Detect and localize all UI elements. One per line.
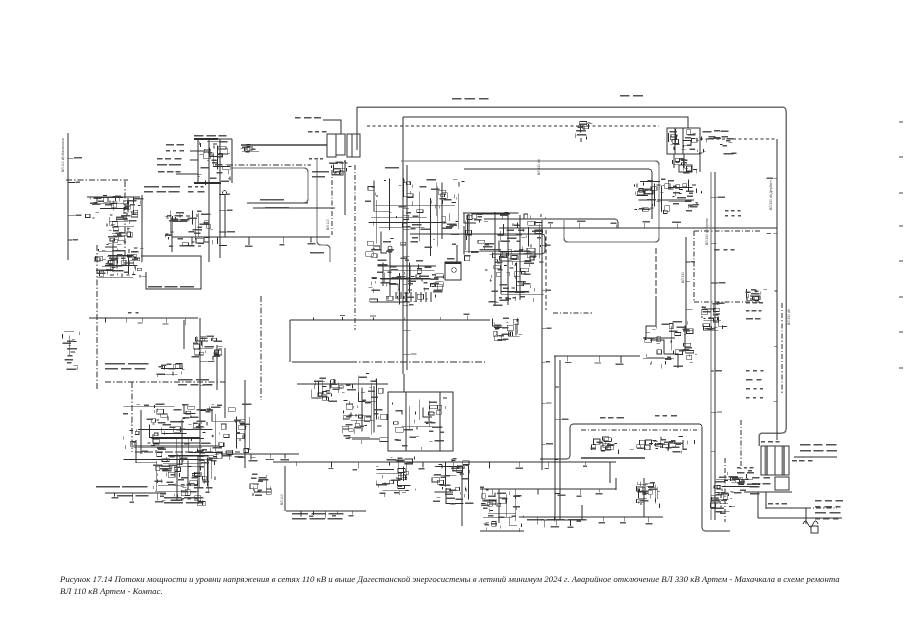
wire MTEC bus v3 x220 xyxy=(219,139,221,258)
substation cluster mid small x156 y363 xyxy=(157,364,185,378)
comb ticks y292 xyxy=(396,292,431,299)
generator box A4 xyxy=(352,134,360,157)
substation cluster x712 y470 row xyxy=(714,470,760,494)
Artem330 divider1 xyxy=(674,128,676,154)
substation cluster x700 y302 xyxy=(701,302,728,330)
wire MTEC top bus thin y139 xyxy=(218,138,232,140)
wire Chiryurt inner v1 xyxy=(405,392,407,451)
label bottom labels2 xyxy=(164,497,204,504)
wire loop line y219 xyxy=(484,219,618,228)
wire line y454 dashdot xyxy=(221,453,299,455)
wire thin vertical x656 link xyxy=(655,248,657,301)
wire dash-dot y313 segment xyxy=(553,312,592,314)
substation cluster Buynaksk xyxy=(85,195,143,221)
Artem330 right stub xyxy=(699,152,701,172)
taps on y356 xyxy=(565,356,624,365)
wire unit feed x457 xyxy=(456,245,458,262)
wire vertical x198 south xyxy=(197,455,199,504)
wire dashdot y382 left xyxy=(105,381,225,383)
substation cluster cluster A marks below xyxy=(330,161,352,175)
wire right block v x806 xyxy=(805,508,807,524)
taps on y197 xyxy=(92,197,135,206)
substation cluster Makhachkala330 box xyxy=(492,317,522,341)
wire dash-dot line y165 MTEC-A xyxy=(227,164,311,166)
wire 330kV Artem feed y117 xyxy=(403,117,688,128)
wire SE loop dashdot y430 xyxy=(581,429,697,431)
label label below A xyxy=(309,158,323,160)
taps on y228 xyxy=(518,220,682,228)
wire MTEC bus v2 x209 xyxy=(208,139,210,262)
wire line y356 center-right xyxy=(554,355,640,357)
wire big loop bottom dashdot xyxy=(350,361,485,363)
substation cluster left edge small x62 y330 xyxy=(62,331,79,370)
transformer bar T1 Derbent330 xyxy=(765,446,769,475)
taps on y384 xyxy=(314,384,375,392)
label PS 41 xyxy=(310,252,324,254)
wire line y203 xyxy=(247,202,308,204)
page edge marks right xyxy=(899,122,903,368)
label south labels y513 xyxy=(292,513,344,520)
substation cluster south mid x253 xyxy=(250,474,271,497)
wire right block v x766 xyxy=(765,492,767,509)
label M-TEC left labels xyxy=(166,144,184,152)
label south labels y519 xyxy=(527,519,586,521)
wire gray route x317 down xyxy=(317,160,330,262)
taps on x711 xyxy=(711,197,725,496)
svg-text:ВЛ 110 кВ: ВЛ 110 кВ xyxy=(397,284,401,300)
taps on y493 xyxy=(112,493,164,503)
svg-text:ВЛ 330 кВ: ВЛ 330 кВ xyxy=(537,159,541,175)
substation cluster huge bottom left xyxy=(123,403,256,465)
label M-TEC below labels xyxy=(188,186,205,193)
label label y503 x768 xyxy=(768,503,787,505)
wire MTEC bus v4 x232 xyxy=(231,139,233,183)
wire vertical x177 south xyxy=(176,454,178,500)
wire dash-dot vertical x355 xyxy=(354,165,356,330)
label labels y379 xyxy=(178,379,212,386)
label rect interior label xyxy=(148,286,194,288)
substation cluster mid cluster y260-300 xyxy=(368,262,443,304)
wire Chiryurt inner v2 xyxy=(439,392,441,451)
taps on x200 xyxy=(200,336,215,453)
wire dash-dot loop right V xyxy=(693,231,695,302)
wire MTEC top busbar y139 xyxy=(194,138,218,140)
wire dash-dot loop right H2 xyxy=(694,301,762,303)
wire main vertical bus x403 xyxy=(402,117,404,374)
taps on y511 xyxy=(301,511,353,518)
substation cluster top mid small x575 xyxy=(576,122,593,143)
small box below block xyxy=(775,477,789,490)
wire left edge vertical x68 xyxy=(67,133,69,260)
taps on y489 xyxy=(488,489,603,497)
wire line y452 south-left xyxy=(135,451,240,453)
substation cluster M-TEC right box xyxy=(241,144,260,152)
label labels right of x177 xyxy=(181,477,198,500)
taps on x403 xyxy=(403,183,416,355)
wire vertical x560 south xyxy=(559,360,561,520)
Artem330 below pair xyxy=(674,154,684,168)
taps on x68 xyxy=(68,157,82,240)
wire right block dashdot y508 xyxy=(806,507,837,509)
wire dash-dot left y180 xyxy=(66,179,128,181)
wire line y517 bottom xyxy=(519,516,663,518)
substation cluster below rect center xyxy=(463,212,545,265)
wire line y200 east xyxy=(657,199,694,201)
wire dashed segment y139 right xyxy=(700,138,777,140)
winding boxes xyxy=(811,526,818,533)
wire bottom line y520 xyxy=(540,519,580,521)
substation cluster N.Tarki labels xyxy=(165,210,213,247)
label label VL330 Artem top xyxy=(452,98,488,100)
wire line y462 south xyxy=(273,461,616,463)
wire 330kV line Artem-Derbent top xyxy=(357,107,786,111)
winding symbol bottom-right xyxy=(803,521,818,527)
wire vertical x132 dashdot xyxy=(131,382,133,452)
wire dash-dot vertical x725 xyxy=(724,458,726,522)
wire right block line y492 xyxy=(744,491,792,493)
substation cluster x710 y490 boxes xyxy=(711,492,736,514)
wire gray twin vertical x711 xyxy=(710,172,712,520)
taps on y320 loop xyxy=(314,314,470,320)
svg-text:ВЛ 330: ВЛ 330 xyxy=(681,272,685,283)
wire vertical x125 dashdot xyxy=(124,181,126,258)
taps on y318 xyxy=(105,318,185,325)
label label 1000om xyxy=(128,312,138,314)
wire SE loop left vertical x570 xyxy=(540,424,574,459)
label labels x737 y467 xyxy=(737,467,754,474)
wire vertical x404 above rect xyxy=(403,374,405,392)
label right block label y460 xyxy=(792,460,812,462)
Artem330 below box xyxy=(679,165,692,172)
wire chains x520 vertical xyxy=(519,215,521,300)
taps on x219 xyxy=(219,194,235,246)
transformer inner line xyxy=(774,446,776,475)
Artem330 divider2 xyxy=(682,128,684,154)
wire vertical x225 generator xyxy=(224,194,226,237)
label M-TEC left labels2 xyxy=(157,158,182,166)
generator G2 circle xyxy=(388,246,392,250)
wire chains x495 vertical xyxy=(494,212,496,305)
wire 330kV line right outer vertical xyxy=(759,111,786,446)
taps on y237 xyxy=(186,237,315,247)
wire staircase wire NE xyxy=(646,301,678,368)
wire rect loop left-mid xyxy=(141,256,201,289)
wire label wire top A xyxy=(323,120,341,134)
label M-TEC left labels3 xyxy=(158,171,181,173)
substation cluster left chain down xyxy=(105,217,138,261)
wire line y208 xyxy=(253,207,335,209)
substation cluster center chains x485-540 xyxy=(485,248,544,306)
wire right block line y457 xyxy=(794,456,837,458)
svg-text:ВЛ 110: ВЛ 110 xyxy=(326,219,330,230)
svg-text:ВЛ 110 кВ Махачкала: ВЛ 110 кВ Махачкала xyxy=(61,138,65,172)
wire disconnected line dashed y126 xyxy=(367,125,659,127)
wire big loop bottom solid xyxy=(292,361,350,363)
taps on x686 xyxy=(686,261,695,310)
wire MTEC left link3 xyxy=(176,173,198,175)
wire right block line y518 xyxy=(758,517,842,519)
wire line y489 south-right xyxy=(480,488,616,490)
labels x312 y171 xyxy=(312,171,329,178)
taps on y454 xyxy=(229,454,289,461)
label right block labels east xyxy=(800,444,837,452)
label Artem-Shamkhal label xyxy=(714,249,734,251)
wire gray route y168 down x308 xyxy=(232,168,308,203)
svg-text:ВЛ 330 кВ Дербент: ВЛ 330 кВ Дербент xyxy=(769,180,773,210)
wire bottom edge y531 xyxy=(480,530,524,532)
wire MTEC bottom busbar y183 xyxy=(194,182,221,184)
labels y200 over lines xyxy=(260,199,289,209)
substation cluster Artem 330 internals xyxy=(669,129,703,153)
wire vertical x113 upper xyxy=(112,240,114,272)
caption text xyxy=(60,573,852,597)
wire MTEC bus v1 x198 xyxy=(197,139,199,183)
svg-text:ВЛ 330 кВ Артем: ВЛ 330 кВ Артем xyxy=(705,218,709,245)
label left bottom labels b xyxy=(117,495,149,497)
wire vertical x225 mid xyxy=(224,348,226,418)
wire vertical x172 stub xyxy=(171,237,173,252)
transformer bar T2 Derbent330 xyxy=(782,446,786,475)
substation cluster Derbent area xyxy=(376,456,415,497)
wire dash-dot y163 below A xyxy=(329,162,349,164)
generator G1 circle xyxy=(223,191,227,195)
substation cluster below Artem xyxy=(672,158,697,174)
substation cluster left block 2 xyxy=(94,249,146,278)
wire dash-dot vertical x782 xyxy=(781,303,783,395)
wire dash-dot vertical x741 xyxy=(740,420,742,470)
substation cluster Irganai xyxy=(312,377,348,402)
wire SE thick gray bar y458 xyxy=(581,457,645,459)
generator box A1 xyxy=(327,134,336,157)
wire vertical x462 south xyxy=(461,470,463,526)
comb ticks y297 xyxy=(406,296,431,302)
label labels right col1 xyxy=(725,210,741,217)
label right block labels top xyxy=(761,441,780,443)
wire vertical x616 up xyxy=(615,478,617,490)
svg-text:ВЛ 110: ВЛ 110 xyxy=(280,494,284,505)
wire line y237 long xyxy=(172,236,330,238)
substation cluster center left of bus403 xyxy=(365,178,464,262)
svg-text:ВЛ 330 кВ: ВЛ 330 кВ xyxy=(787,309,791,325)
wire big loop left side xyxy=(289,320,291,362)
wire bus y197 Buynaksk xyxy=(87,196,140,198)
wire generator feeder x390 xyxy=(389,250,391,296)
wire dashed vertical x546 xyxy=(545,230,547,310)
wire Belidzhi line y493 xyxy=(105,492,166,494)
wire vertical x542 center long xyxy=(541,220,543,470)
label right block labels low xyxy=(752,477,770,485)
taps on x542 xyxy=(542,245,553,445)
wire vertical x686 xyxy=(685,237,687,330)
wire vertical x345 thin xyxy=(344,160,346,215)
generator box A2 xyxy=(336,134,345,155)
generator box A3 xyxy=(347,134,352,157)
substation cluster Chiryurt inner xyxy=(393,398,447,450)
wire vertical x285 drop xyxy=(284,466,286,511)
label SE loop top labels xyxy=(600,417,624,419)
substation cluster Kasumkent xyxy=(432,458,473,504)
label right bottom labels col xyxy=(815,500,843,520)
label labels above A xyxy=(295,117,321,119)
wire vertical x582 xyxy=(581,505,583,520)
label labels x746 y370 xyxy=(746,370,763,399)
label chains bottom label xyxy=(499,297,516,299)
wire MTEC left link1 xyxy=(190,150,209,152)
label long label left y363 xyxy=(105,363,148,370)
wire vertical bus x200 center-left xyxy=(199,318,201,468)
taps on y462 xyxy=(297,462,588,470)
substation cluster Signal PV xyxy=(192,336,223,360)
wire dash-dot loop right H1 xyxy=(694,230,760,232)
substation cluster south-right x480 y486 xyxy=(480,487,523,532)
label left bottom labels xyxy=(96,486,147,488)
substation frame Artem330 xyxy=(667,128,700,154)
wire dash-dot vertical x261 xyxy=(260,296,262,400)
wire SE loop right vertical x702 xyxy=(699,424,730,531)
wire big loop top y320 xyxy=(290,319,490,321)
wire vertical x644 xyxy=(643,478,645,517)
substation cluster Chiryurt west xyxy=(342,374,387,445)
unit box x445 xyxy=(445,262,461,280)
wire chains x508 vertical xyxy=(507,212,509,305)
wire 330kV gray loop center xyxy=(401,161,659,242)
taps on x777 xyxy=(766,178,777,402)
substation cluster right mid labels x660 xyxy=(661,179,702,214)
taps on x555 xyxy=(555,387,569,494)
wire 110kV gray line y145 MTEC-A xyxy=(241,144,327,146)
substation cluster x634 y178 xyxy=(634,180,661,211)
wire SE loop top y424 xyxy=(574,423,699,425)
substation cluster labels right of Artem xyxy=(701,130,736,155)
wire long line y228 east xyxy=(499,227,777,229)
substation cluster Belidzhi south xyxy=(153,455,215,505)
wire loop line y169 xyxy=(464,169,652,219)
label labels x746 y300 xyxy=(746,302,763,320)
wire vertical x610 drop xyxy=(609,462,611,483)
substation cluster x747 y290 xyxy=(746,289,767,301)
wire left corner drop x357 xyxy=(356,107,358,150)
wire Chiryurt rect xyxy=(388,392,453,451)
wire line y511 south xyxy=(286,510,366,512)
label M-TEC top label xyxy=(194,135,227,137)
wire line y318 1000om xyxy=(89,317,198,319)
substation cluster SE loop row boxes xyxy=(591,436,695,453)
wire right block line y508 xyxy=(766,507,806,509)
wire line y384 Irganai xyxy=(297,383,388,385)
wire vertical x142 xyxy=(141,195,143,262)
wire vertical x555 south xyxy=(554,356,556,520)
wire second vertical bus x407 xyxy=(406,165,408,370)
wire right block v x758 xyxy=(757,492,759,518)
wire dash-dot vertical x97 xyxy=(96,245,98,389)
substation cluster M-TEC internals xyxy=(198,141,232,185)
transformer frame Derbent330 xyxy=(761,446,789,475)
wire 110kV line right vertical x777 xyxy=(776,139,778,440)
wire twin vertical x715 xyxy=(714,172,716,520)
labels x385 y167 xyxy=(385,167,399,169)
wire vertical x184 branch xyxy=(183,320,185,349)
wire dash-dot vertical x332 xyxy=(331,170,333,235)
label SE loop top labels2 xyxy=(655,415,677,417)
label center scatter labels xyxy=(144,186,180,193)
wire vertical x245 xyxy=(244,380,246,468)
label labels above A2 xyxy=(308,131,326,133)
wire nested loop y234 xyxy=(410,234,545,254)
taps on y517 xyxy=(537,517,652,525)
label label VL330 top2 xyxy=(620,95,643,97)
substation cluster x638 y481 boxes xyxy=(637,482,661,509)
taps on y520 xyxy=(544,520,573,528)
substation cluster NE staircase xyxy=(643,321,697,369)
wire vertical x217 branch xyxy=(216,345,218,390)
wire MTEC left link2 xyxy=(190,159,198,161)
